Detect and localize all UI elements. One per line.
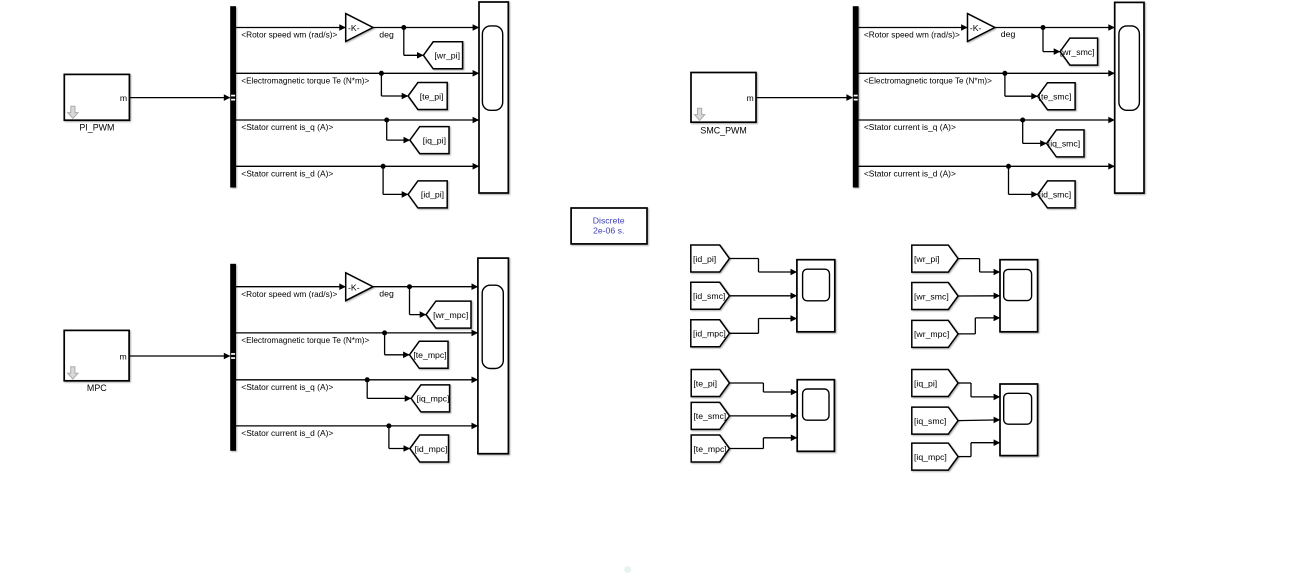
svg-text:[te_mpc]: [te_mpc] [413,350,446,360]
svg-text:[iq_pi]: [iq_pi] [914,378,937,388]
svg-text:[te_mpc]: [te_mpc] [693,444,726,454]
svg-text:[iq_smc]: [iq_smc] [914,416,946,426]
svg-text:deg: deg [379,29,394,39]
svg-text:Discrete: Discrete [593,215,625,225]
svg-text:<Stator current is_d (A)>: <Stator current is_d (A)> [241,428,333,438]
svg-text:<Electromagnetic torque Te (N*: <Electromagnetic torque Te (N*m)> [864,76,992,86]
svg-text:<Electromagnetic torque Te (N*: <Electromagnetic torque Te (N*m)> [241,335,369,345]
svg-text:m: m [746,93,753,103]
svg-text:<Stator current is_d (A)>: <Stator current is_d (A)> [864,169,956,179]
svg-text:[id_smc]: [id_smc] [1039,190,1071,200]
svg-text:[wr_pi]: [wr_pi] [914,254,940,264]
svg-text:-K-: -K- [348,282,360,292]
svg-text:-K-: -K- [348,23,360,33]
svg-text:[id_mpc]: [id_mpc] [693,329,726,339]
svg-text:<Rotor speed wm (rad/s)>: <Rotor speed wm (rad/s)> [241,289,337,299]
svg-text:[wr_pi]: [wr_pi] [434,51,460,61]
svg-text:PI_PWM: PI_PWM [79,123,114,133]
svg-text:[te_smc]: [te_smc] [693,411,726,421]
svg-text:[id_pi]: [id_pi] [421,190,444,200]
svg-text:SMC_PWM: SMC_PWM [700,125,746,135]
svg-text:[id_smc]: [id_smc] [693,291,725,301]
svg-text:deg: deg [1001,29,1016,39]
svg-text:[wr_mpc]: [wr_mpc] [433,310,468,320]
svg-text:<Stator current is_q (A)>: <Stator current is_q (A)> [241,382,333,392]
svg-text:[te_pi]: [te_pi] [420,91,444,101]
svg-text:[wr_mpc]: [wr_mpc] [914,329,949,339]
svg-text:m: m [120,93,127,103]
svg-text:[iq_mpc]: [iq_mpc] [914,452,947,462]
svg-text:[id_pi]: [id_pi] [693,254,716,264]
svg-text:[wr_smc]: [wr_smc] [1060,47,1095,57]
svg-text:[iq_pi]: [iq_pi] [423,135,446,145]
svg-text:[te_pi]: [te_pi] [693,378,717,388]
svg-text:[id_mpc]: [id_mpc] [415,444,448,454]
svg-text:<Stator current is_q (A)>: <Stator current is_q (A)> [864,122,956,132]
svg-text:<Electromagnetic torque Te (N*: <Electromagnetic torque Te (N*m)> [241,76,369,86]
svg-text:MPC: MPC [87,383,107,393]
svg-text:m: m [120,351,127,361]
svg-text:deg: deg [379,289,394,299]
svg-text:[te_smc]: [te_smc] [1039,92,1072,102]
svg-text:<Rotor speed wm (rad/s)>: <Rotor speed wm (rad/s)> [241,30,337,40]
svg-text:[iq_mpc]: [iq_mpc] [417,394,450,404]
svg-text:-K-: -K- [970,23,982,33]
svg-text:2e-06 s.: 2e-06 s. [593,226,624,236]
svg-text:[wr_smc]: [wr_smc] [914,291,949,301]
svg-text:<Rotor speed wm (rad/s)>: <Rotor speed wm (rad/s)> [864,30,960,40]
svg-text:<Stator current is_q (A)>: <Stator current is_q (A)> [241,122,333,132]
svg-text:<Stator current is_d (A)>: <Stator current is_d (A)> [241,169,333,179]
svg-text:[iq_smc]: [iq_smc] [1048,139,1080,149]
